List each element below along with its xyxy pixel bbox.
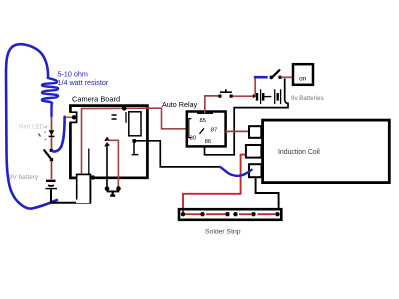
battery B1 (9V)	[46, 181, 58, 189]
wire (red, toggle switch to indicator box)	[282, 76, 293, 78]
wire (red, pushbutton to battery pack +)	[233, 95, 255, 97]
module (white box under board, e.g. lens/servo)	[76, 174, 91, 204]
wire (blue segment into toggle switch)	[254, 76, 268, 79]
auto relay box	[187, 112, 226, 147]
svg-text:85: 85	[200, 118, 206, 124]
svg-text:Auto Relay: Auto Relay	[162, 100, 198, 109]
pin 85 terminal bar	[197, 112, 213, 114]
wire (red, relay pin 87 to coil tab 1)	[226, 130, 249, 132]
resistor R (5-10 ohm 1/4 watt)	[42, 78, 58, 117]
IC U1 (tall rectangle on board)	[129, 112, 141, 136]
terminal (upper arrow on board center)	[104, 137, 110, 142]
indicator box (on)	[293, 64, 313, 85]
wire (black, battery negative to camera module)	[51, 190, 91, 203]
coil terminal tab 1	[249, 126, 261, 138]
terminal (lower arrow on board center)	[104, 142, 110, 147]
wire (brown lead into board notch)	[65, 116, 73, 118]
pcb trace (maroon) on board + wire to relay pin 30	[82, 108, 187, 174]
solder strip	[179, 209, 281, 220]
svg-text:9V battery: 9V battery	[9, 174, 39, 181]
relay contact lever	[200, 128, 205, 134]
wire (blue jumper from notch wire down to switch)	[52, 117, 65, 152]
pushbutton switch (momentary)	[218, 89, 233, 98]
solder strip terminals and jumpers	[181, 212, 280, 216]
svg-text:9v Batteries: 9v Batteries	[291, 95, 324, 102]
blue induction sense loop wire	[6, 44, 57, 208]
wire (red, coil tab 2 to solder strip)	[183, 155, 245, 213]
component lead (small tick)	[125, 112, 127, 123]
connector (below board, two pins with bracket and plug)	[105, 186, 121, 195]
svg-text:Induction Coil: Induction Coil	[278, 149, 320, 156]
node (junction dot at module / board bottom)	[91, 175, 95, 179]
wire (black, coil tab 3 to solder strip)	[256, 178, 279, 208]
coil terminal tab 3	[249, 164, 262, 177]
wire (red, toggle switch junction down to battery pack +)	[254, 77, 256, 95]
svg-text:87: 87	[211, 128, 217, 134]
LED D1 (red LED on wire)	[39, 126, 55, 140]
svg-text:on: on	[299, 76, 307, 83]
svg-text:30: 30	[190, 136, 196, 142]
battery pack B2 (two 9v batteries)	[253, 89, 281, 104]
svg-text:Camera Board: Camera Board	[72, 95, 120, 104]
node (junction dot on top trace)	[122, 106, 127, 111]
wire (black, board center to connector pin)	[106, 145, 108, 188]
svg-text:86: 86	[205, 139, 211, 145]
wire (maroon, board center to connector pin)	[108, 140, 119, 188]
svg-text:Solder Strip: Solder Strip	[205, 229, 241, 236]
component lead (inside board to module)	[88, 149, 90, 175]
wire (red, pushbutton to relay pin 85)	[205, 96, 219, 114]
svg-text:1/4 watt resistor: 1/4 watt resistor	[58, 78, 109, 87]
relay coil bracket	[189, 119, 192, 138]
svg-text:Red LED: Red LED	[19, 124, 45, 131]
wire (red, switch to battery)	[51, 161, 53, 179]
switch S1 (on/off, open)	[44, 149, 53, 161]
wire (black, board to blue squiggle toward coil tab 3)	[135, 141, 220, 167]
camera board outline	[70, 106, 148, 178]
coil terminal tab 2	[246, 145, 262, 158]
node (junction dot at notch)	[72, 115, 76, 119]
capacitor C1 (two bars)	[112, 115, 117, 119]
wire (blue squiggle to coil tab 3)	[220, 167, 252, 176]
component lead (stub with foot)	[132, 142, 139, 155]
node (junction square on board right)	[132, 139, 136, 142]
wire (red, resistor to switch)	[51, 117, 53, 150]
wire (black, battery pack negative loop to relay pin 86)	[205, 79, 289, 155]
toggle switch S2 (open)	[270, 70, 282, 79]
induction coil box	[263, 120, 390, 183]
